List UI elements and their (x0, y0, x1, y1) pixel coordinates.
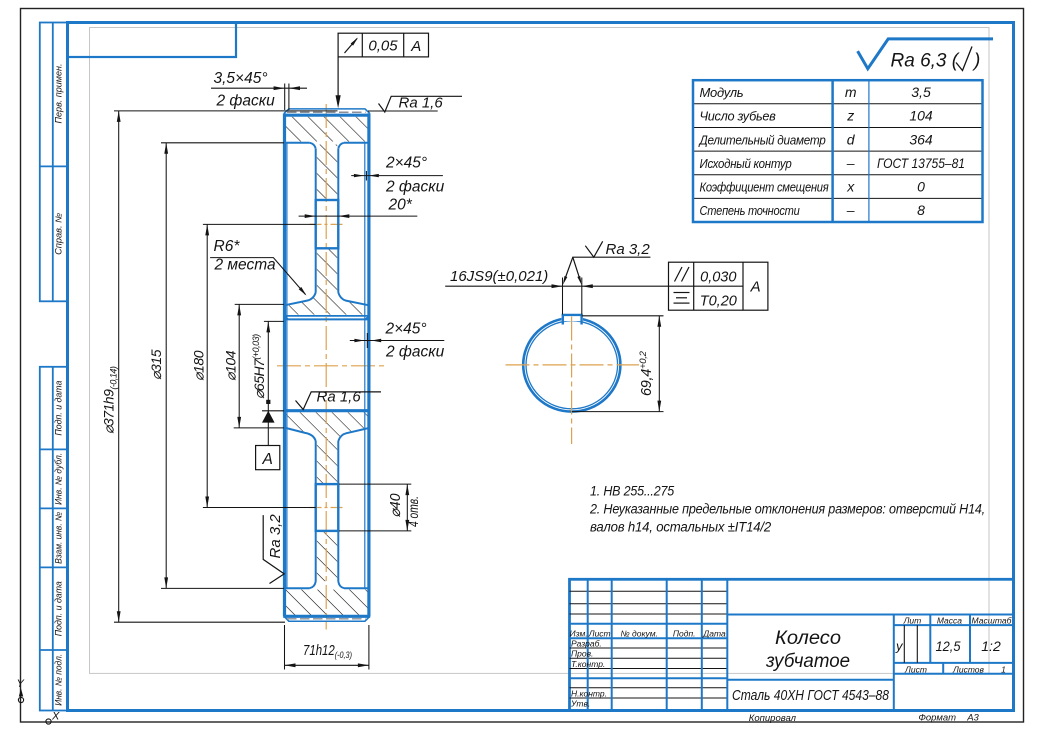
svg-text:Ra 1,6: Ra 1,6 (317, 389, 362, 406)
svg-text:2×45°: 2×45° (385, 321, 427, 338)
svg-text:3,5×45°: 3,5×45° (214, 70, 268, 87)
svg-text:А: А (410, 38, 421, 55)
svg-text:Формат: Формат (918, 713, 956, 724)
chamfer dim 3,5x45 (211, 84, 307, 111)
svg-text:Инв. № подл.: Инв. № подл. (53, 654, 63, 706)
svg-text:Модуль: Модуль (700, 85, 744, 100)
svg-text:⌀180: ⌀180 (191, 350, 207, 381)
svg-text:Подп.: Подп. (673, 629, 696, 639)
dimension d65H7 (262, 321, 284, 445)
Ra 1,6 mark bore (296, 392, 382, 410)
svg-text:104: 104 (909, 108, 933, 124)
svg-text:Делительный диаметр: Делительный диаметр (698, 132, 826, 147)
svg-text:Утв.: Утв. (570, 699, 590, 709)
svg-text:Масса: Масса (937, 615, 962, 625)
tolerance frame parallel/symmetry (669, 262, 768, 310)
svg-text:4 отв.: 4 отв. (405, 496, 421, 527)
inner face thin lines (287, 144, 365, 588)
rim underside and web (285, 143, 369, 588)
web hole lower (316, 484, 339, 531)
svg-text:1: 1 (1001, 665, 1006, 675)
svg-text:Лит: Лит (903, 615, 922, 625)
svg-text:2 места: 2 места (214, 257, 276, 274)
datum A box (256, 446, 280, 470)
runout tolerance frame 0,05 A (338, 33, 428, 57)
gear tooth tip band top (284, 109, 370, 621)
svg-text:z: z (846, 108, 854, 124)
svg-text:8: 8 (917, 202, 925, 218)
svg-text:0: 0 (917, 179, 925, 195)
svg-text:Коэффициент смещения: Коэффициент смещения (700, 180, 829, 195)
svg-text:Степень точности: Степень точности (700, 203, 800, 218)
dimension d180 (203, 224, 316, 507)
svg-text:–: – (846, 202, 855, 218)
svg-text:–: – (846, 155, 855, 171)
svg-text:№ докум.: № докум. (620, 629, 657, 639)
svg-text:20*: 20* (388, 197, 413, 214)
root circle dashed bottom (287, 618, 366, 620)
gear bore axis centerline (277, 365, 385, 367)
left margin column upper group (40, 23, 68, 302)
svg-text:А: А (262, 451, 273, 468)
left margin column lower group (40, 367, 68, 711)
svg-text:Сталь 40ХН ГОСТ 4543–88: Сталь 40ХН ГОСТ 4543–88 (732, 688, 889, 704)
svg-text:валов h14, остальных ±IT14/2: валов h14, остальных ±IT14/2 (590, 520, 771, 536)
datum A triangle (262, 411, 275, 423)
d40 hole dimension (339, 484, 411, 531)
svg-text:0,030: 0,030 (700, 270, 736, 286)
chamfer 2x45 lower annotation (350, 333, 445, 348)
Ra 3,2 mark left face rotated (263, 515, 284, 583)
Y plot axis mark (17, 678, 25, 703)
graph26 box top-left (68, 23, 237, 58)
svg-text:1. НВ 255...275: 1. НВ 255...275 (590, 484, 674, 500)
svg-text:Исходный контур: Исходный контур (700, 156, 792, 171)
svg-text:Взам. инв. №: Взам. инв. № (53, 512, 63, 564)
X plot axis mark (46, 711, 60, 725)
svg-text:X: X (51, 711, 60, 723)
svg-text:Н.контр.: Н.контр. (571, 688, 607, 698)
svg-text:Копировал: Копировал (749, 713, 797, 724)
section view centerlines (571, 317, 573, 445)
svg-text:2. Неуказанные предельные откл: 2. Неуказанные предельные отклонения раз… (589, 502, 985, 518)
svg-text:2 фаски: 2 фаски (385, 344, 445, 361)
gear main outline thick (283, 113, 370, 616)
gear section hatching (286, 117, 368, 615)
svg-text:Подп. и дата: Подп. и дата (53, 381, 63, 436)
svg-text:R6*: R6* (214, 238, 241, 255)
chamfer 2x45 upper annotation (351, 171, 443, 181)
width dimension 71h12 (285, 625, 369, 670)
keyway depth dim 69,4 (572, 316, 664, 412)
root circle dashed top (287, 111, 366, 113)
svg-text:): ) (972, 51, 980, 72)
keyway bottom line in bore (285, 316, 369, 320)
left margin labels (53, 64, 63, 706)
svg-text:d: d (847, 131, 856, 147)
svg-text:Ra 6,3 (: Ra 6,3 ( (891, 51, 960, 72)
svg-text:Справ. №: Справ. № (53, 213, 63, 255)
svg-text:⌀40: ⌀40 (388, 494, 404, 518)
web hole upper (316, 200, 339, 248)
svg-text:⌀315: ⌀315 (148, 349, 164, 380)
svg-text:Лист: Лист (588, 629, 611, 639)
svg-text:Листов: Листов (952, 665, 985, 675)
svg-text:2 фаски: 2 фаски (216, 93, 276, 110)
svg-text:364: 364 (909, 131, 933, 147)
svg-text:Дата: Дата (702, 629, 726, 639)
title block small labels (570, 615, 1013, 708)
svg-text:А: А (750, 279, 761, 296)
svg-text:Инв. № дубл.: Инв. № дубл. (53, 453, 63, 505)
dimension d371h9 (114, 111, 338, 622)
keyway section view circles (523, 318, 620, 412)
svg-text:Масштаб: Масштаб (972, 615, 1013, 625)
web 20 dimension (299, 215, 418, 217)
svg-text:Разраб.: Разраб. (571, 639, 602, 649)
svg-text:Т.контр.: Т.контр. (571, 659, 605, 669)
svg-text:А3: А3 (966, 713, 979, 724)
web hole centerlines (310, 223, 345, 225)
title block (570, 579, 1014, 710)
dimension d315 (161, 143, 284, 589)
svg-text:2 фаски: 2 фаски (385, 179, 445, 196)
surface finish corner mark Ra 6,3 (858, 39, 993, 69)
svg-text:Ra 3,2: Ra 3,2 (267, 514, 284, 559)
runout leader arrow (337, 57, 339, 100)
dimension d104 (234, 304, 284, 428)
keyway slot (563, 315, 582, 325)
svg-text:Лист: Лист (904, 665, 927, 675)
Ra 1,6 mark on tip (368, 110, 438, 112)
svg-text:Т0,20: Т0,20 (700, 294, 737, 310)
gear centerline vertical axis (325, 104, 327, 630)
keyway width dim 16JS9 (445, 278, 668, 315)
plot area gray boundary (90, 28, 990, 674)
svg-text:1:2: 1:2 (981, 638, 1001, 654)
svg-text:ГОСТ 13755–81: ГОСТ 13755–81 (877, 155, 965, 171)
svg-text:Число зубьев: Число зубьев (700, 109, 776, 124)
svg-text:0,05: 0,05 (368, 38, 398, 55)
svg-text:3,5: 3,5 (911, 84, 931, 100)
svg-text:Подп. и дата: Подп. и дата (53, 581, 63, 636)
svg-text:Ra 1,6: Ra 1,6 (399, 95, 444, 112)
svg-text:x: x (846, 179, 855, 195)
gear parameters table (693, 104, 983, 199)
svg-text:Изм.: Изм. (570, 629, 588, 639)
svg-text:12,5: 12,5 (936, 638, 961, 654)
svg-text:⌀104: ⌀104 (223, 350, 239, 381)
svg-text:Пров.: Пров. (571, 649, 593, 659)
Ra 3,2 mark keyway (564, 241, 650, 281)
R6 leader (210, 258, 305, 295)
svg-text:Ra 3,2: Ra 3,2 (606, 241, 651, 258)
svg-text:16JS9(±0,021): 16JS9(±0,021) (450, 268, 548, 285)
svg-text:m: m (845, 84, 857, 100)
svg-text:Y: Y (17, 678, 25, 690)
svg-text:Перв. примен.: Перв. примен. (53, 64, 63, 124)
svg-text:Колесо: Колесо (775, 628, 841, 649)
svg-text:зубчатое: зубчатое (765, 651, 850, 672)
svg-text:2×45°: 2×45° (385, 155, 427, 172)
notes (589, 484, 985, 536)
